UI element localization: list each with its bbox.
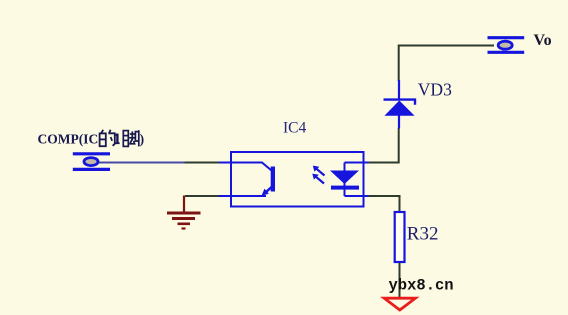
svg-text:ybx8.cn: ybx8.cn [389, 277, 454, 295]
svg-text:COMP(IC: COMP(IC [38, 131, 99, 146]
svg-text:): ) [140, 131, 145, 146]
svg-text:VD3: VD3 [418, 80, 452, 100]
svg-text:R32: R32 [407, 224, 439, 245]
svg-text:Vo: Vo [534, 32, 552, 49]
svg-text:IC4: IC4 [283, 119, 307, 136]
